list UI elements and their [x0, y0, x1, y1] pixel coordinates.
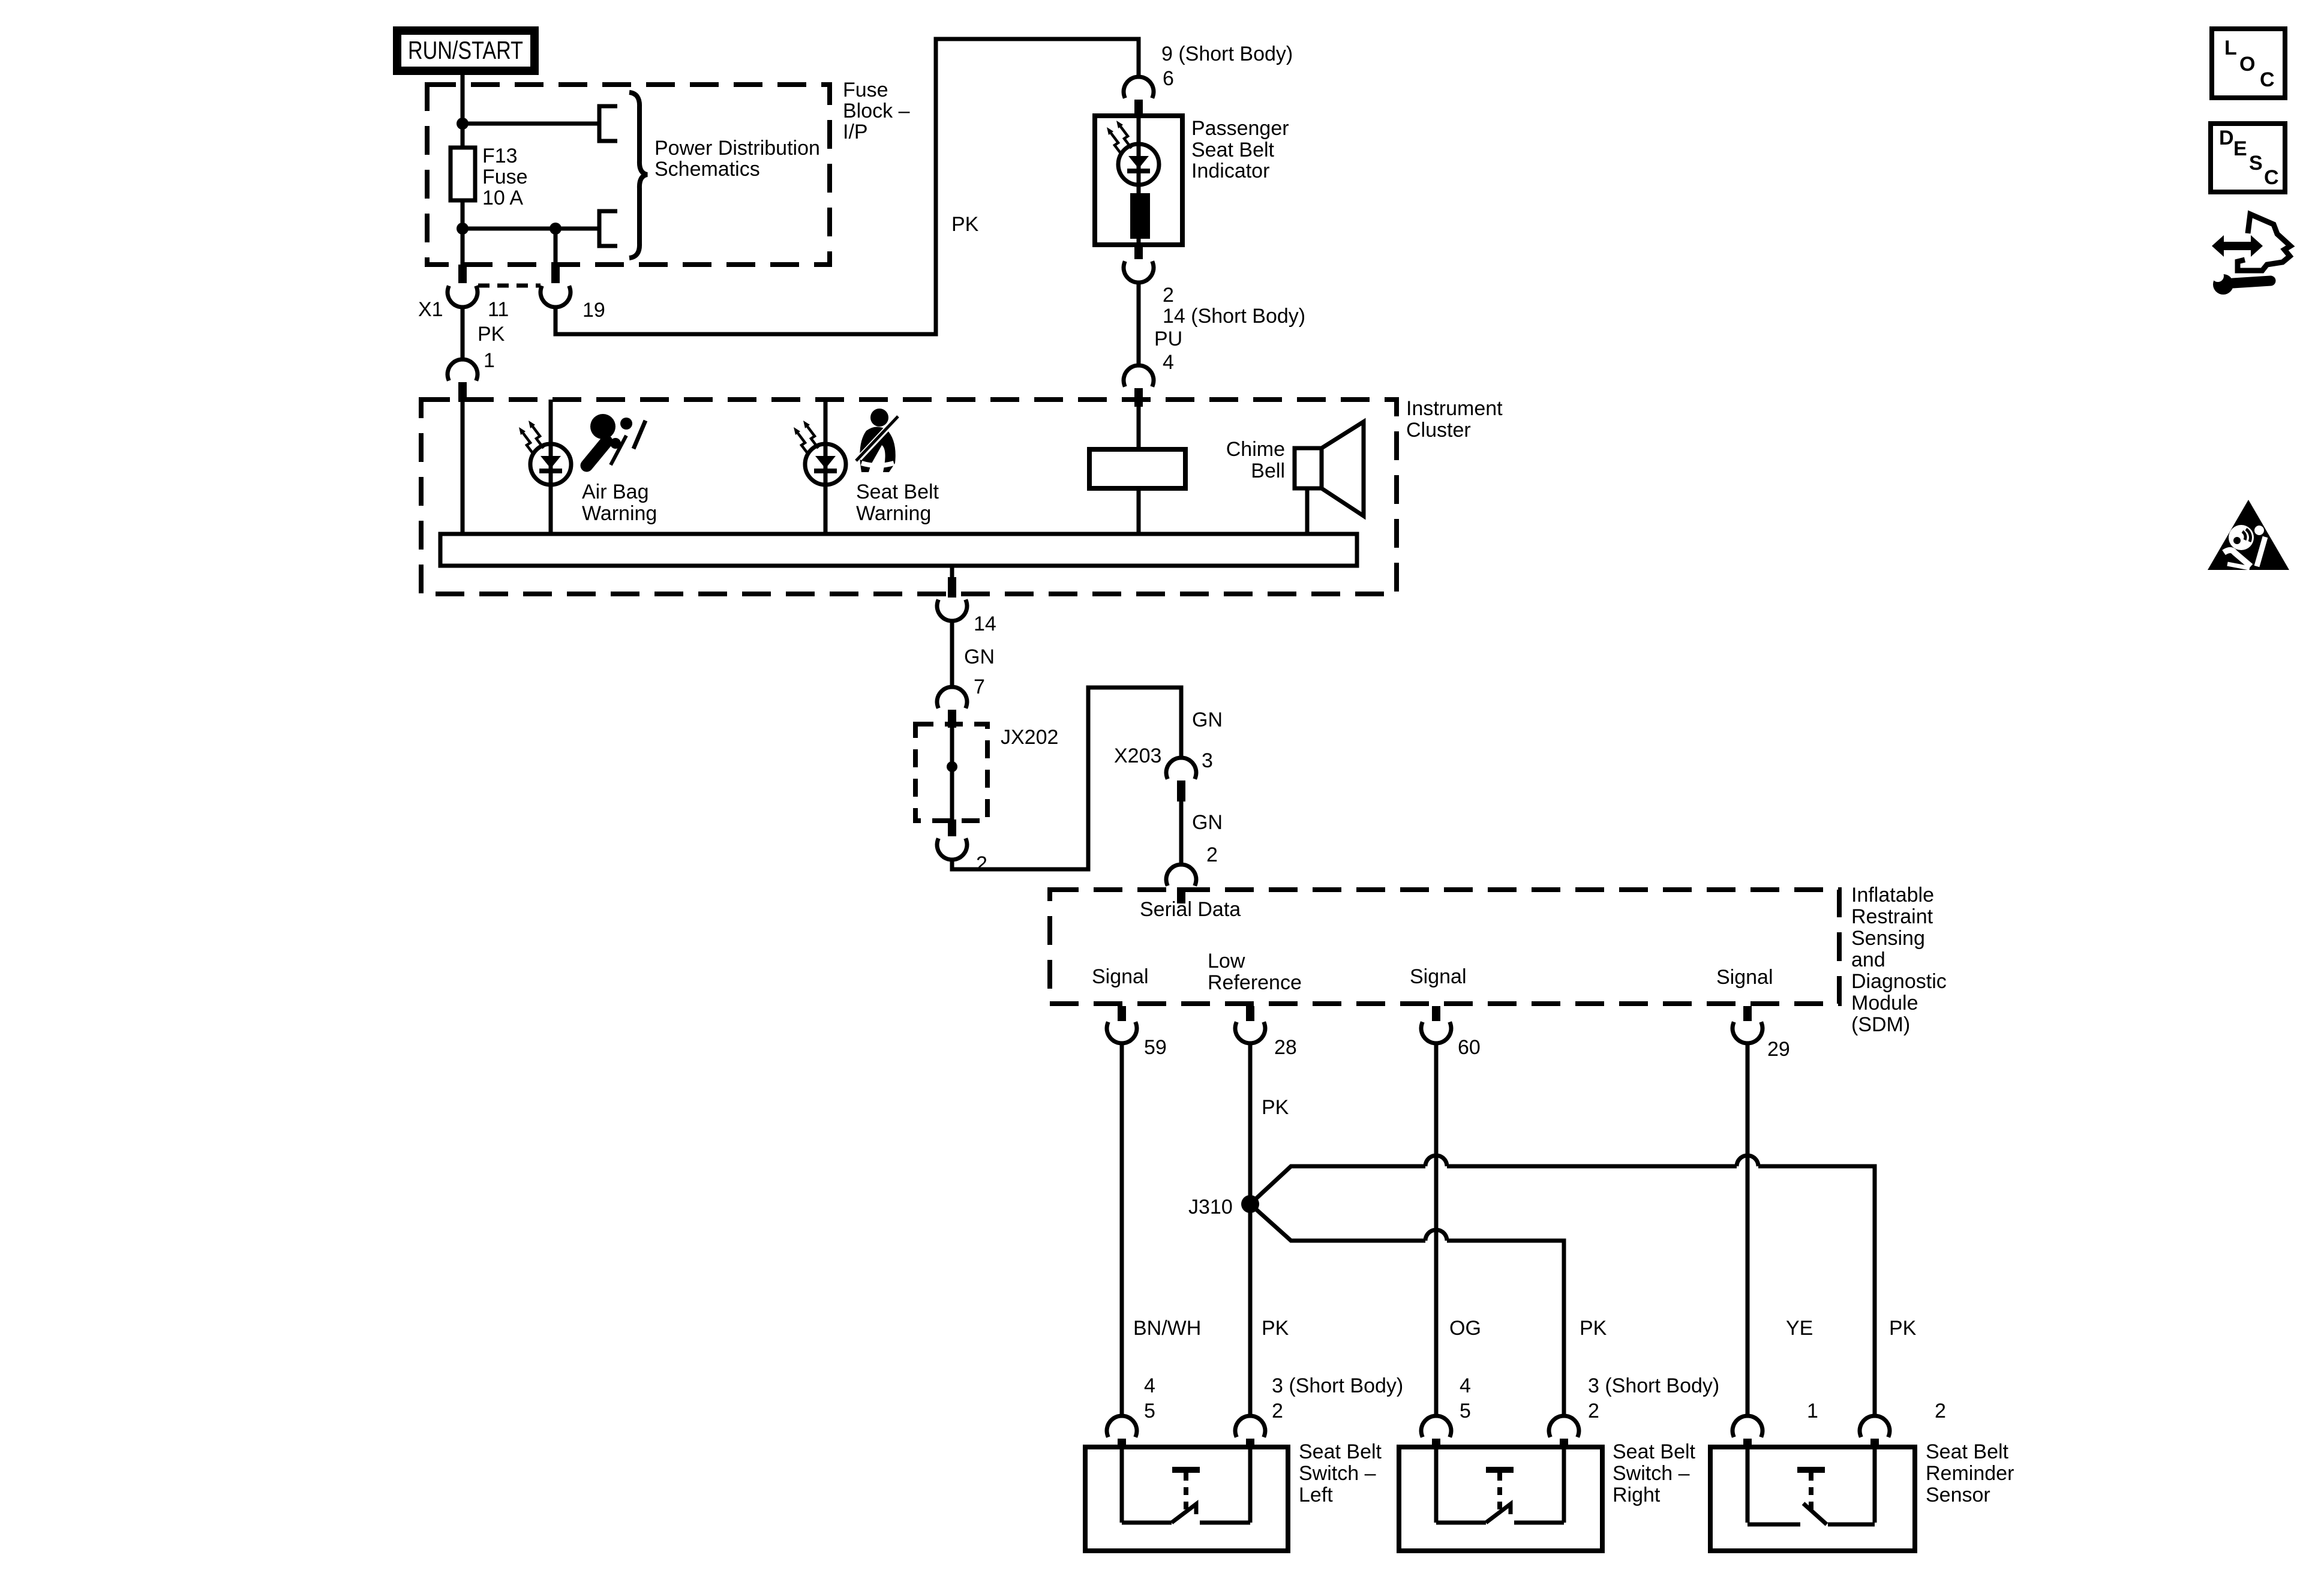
connector SDM pin 60 cup: [1421, 1022, 1451, 1043]
connector pin 4 stub: [1134, 388, 1143, 407]
node junction tap for pin 19: [550, 223, 562, 235]
wire cluster feed pin1: [461, 400, 465, 535]
power source RUN/START box: [397, 31, 535, 71]
terminal symbol A (to power distribution): [599, 106, 617, 141]
svg-text:PK: PK: [1262, 1096, 1289, 1119]
svg-text:X1: X1: [418, 298, 443, 321]
svg-text:S: S: [2249, 152, 2263, 175]
seat belt switch left box: [1085, 1447, 1288, 1551]
label Low Reference: [1208, 950, 1302, 994]
svg-text:Sensor: Sensor: [1926, 1484, 1990, 1506]
svg-text:2: 2: [1935, 1400, 1946, 1422]
node JX202 splice dot: [947, 761, 957, 772]
label Signal 29: [1716, 966, 1773, 989]
fuse block I/P dashed box: [427, 85, 830, 265]
svg-text:C: C: [2260, 68, 2275, 91]
seat belt switch right box: [1399, 1447, 1602, 1551]
wire speaker to bus: [1305, 488, 1310, 535]
svg-text:Low: Low: [1208, 950, 1245, 972]
svg-text:PK: PK: [1262, 1317, 1289, 1340]
svg-text:4: 4: [1144, 1374, 1155, 1397]
connector SDM pin 28 stub: [1246, 1006, 1254, 1021]
label pin 1 sensor: [1807, 1400, 1818, 1422]
svg-text:4: 4: [1163, 351, 1174, 374]
svg-text:Block –: Block –: [843, 100, 910, 122]
svg-text:Warning: Warning: [856, 502, 931, 525]
svg-text:Schematics: Schematics: [654, 158, 760, 181]
svg-text:Passenger: Passenger: [1191, 117, 1289, 140]
connector pin 2 stub: [1134, 245, 1143, 259]
svg-text:Diagnostic: Diagnostic: [1851, 970, 1947, 993]
connector pin 6 stub: [1134, 100, 1143, 118]
svg-text:GN: GN: [964, 646, 995, 668]
label pin 4 right: [1460, 1374, 1471, 1397]
svg-text:PU: PU: [1154, 328, 1182, 350]
svg-text:Inflatable: Inflatable: [1851, 884, 1934, 906]
wire signal 29 YE: [1746, 1043, 1750, 1416]
connector SDM pin 28 cup: [1235, 1022, 1265, 1043]
label Seat Belt Reminder Sensor: [1926, 1440, 2014, 1506]
svg-text:D: D: [2219, 127, 2234, 149]
wire through indicator LED: [1137, 116, 1141, 193]
wire air bag LED branch: [549, 400, 553, 535]
svg-text:3 (Short Body): 3 (Short Body): [1272, 1374, 1403, 1397]
svg-text:9 (Short Body): 9 (Short Body): [1161, 43, 1293, 65]
svg-text:F13: F13: [482, 145, 518, 167]
svg-text:14: 14: [974, 613, 996, 635]
svg-text:(SDM): (SDM): [1851, 1013, 1910, 1036]
label Passenger Seat Belt Indicator: [1191, 117, 1289, 182]
label X203 pin 3: [1202, 749, 1213, 772]
svg-text:10 A: 10 A: [482, 187, 523, 209]
indicator resistor: [1130, 193, 1150, 239]
brace power distribution: [629, 92, 647, 258]
label pin 29: [1767, 1038, 1790, 1061]
label Seat Belt Switch Right: [1613, 1440, 1696, 1506]
wire chime feed upper: [1137, 400, 1141, 449]
svg-text:Cluster: Cluster: [1406, 419, 1471, 442]
instrument cluster dashed box: [421, 400, 1397, 594]
label Power Distribution Schematics: [654, 137, 820, 181]
label X1: [418, 298, 443, 321]
svg-text:Bell: Bell: [1251, 460, 1285, 482]
svg-text:6: 6: [1163, 67, 1174, 90]
passenger seat belt indicator box: [1095, 116, 1182, 245]
label Fuse Block - I/P: [843, 79, 910, 143]
svg-text:2: 2: [1272, 1400, 1283, 1422]
label pin 2 sensor: [1935, 1400, 1946, 1422]
label pin 3 short body right: [1588, 1374, 1719, 1397]
connector SDM pin 59 cup: [1107, 1022, 1137, 1043]
wire junction to terminal A: [463, 122, 599, 126]
label pin 2 left: [1272, 1400, 1283, 1422]
svg-text:GN: GN: [1192, 709, 1223, 731]
wire fuse top segment: [461, 124, 465, 148]
connector pin 6 dome: [1124, 77, 1154, 98]
svg-text:60: 60: [1458, 1036, 1481, 1059]
cluster ground bus bar: [440, 534, 1357, 566]
label pin 4: [1163, 351, 1174, 374]
svg-text:Instrument: Instrument: [1406, 397, 1503, 420]
label Signal 60: [1410, 965, 1467, 988]
svg-text:Seat Belt: Seat Belt: [1926, 1440, 2009, 1463]
chime driver box: [1089, 449, 1185, 488]
svg-text:29: 29: [1767, 1038, 1790, 1061]
svg-text:J310: J310: [1188, 1196, 1233, 1218]
svg-text:PK: PK: [478, 323, 505, 346]
fuse F13 10A: [451, 148, 475, 200]
wire inside JX202: [950, 727, 954, 819]
label pin 5 right: [1460, 1400, 1471, 1422]
svg-text:JX202: JX202: [1001, 726, 1058, 749]
connector SDM pin 29 stub: [1743, 1006, 1752, 1021]
svg-text:Switch –: Switch –: [1299, 1462, 1376, 1485]
indicator LED diode: [1127, 156, 1150, 173]
icon DESC box: [2211, 124, 2285, 192]
icon diagnostic arrow: [2212, 235, 2263, 257]
connector cluster pin 1 dome: [448, 359, 478, 381]
svg-text:11: 11: [488, 298, 509, 321]
label Chime Bell: [1226, 438, 1285, 482]
wire low reference PK: [1248, 1043, 1253, 1416]
svg-text:3: 3: [1202, 749, 1213, 772]
seat belt reminder sensor box: [1710, 1447, 1915, 1551]
splice pack JX202 dashed box: [915, 724, 987, 821]
wire bus to pin 14: [950, 566, 954, 578]
svg-text:Fuse: Fuse: [482, 166, 528, 188]
terminal symbol B (to power distribution): [599, 211, 617, 246]
label Instrument Cluster: [1406, 397, 1503, 442]
node junction below fuse: [457, 223, 469, 235]
node J310 splice: [1241, 1195, 1259, 1213]
svg-text:Signal: Signal: [1410, 965, 1467, 988]
svg-text:Power Distribution: Power Distribution: [654, 137, 820, 160]
svg-text:2: 2: [1163, 284, 1174, 307]
svg-text:PK: PK: [1580, 1317, 1607, 1340]
svg-text:RUN/START: RUN/START: [408, 36, 523, 64]
svg-text:5: 5: [1460, 1400, 1471, 1422]
seat belt warning LED: [794, 421, 846, 485]
svg-text:Reminder: Reminder: [1926, 1462, 2014, 1485]
svg-text:28: 28: [1274, 1036, 1297, 1059]
wire junction to terminal B: [463, 227, 599, 231]
svg-text:Reference: Reference: [1208, 971, 1302, 994]
air bag pictogram: [587, 414, 645, 466]
label pin 11: [488, 298, 509, 321]
connector pin 14 cup: [937, 599, 967, 621]
svg-text:Fuse: Fuse: [843, 79, 888, 101]
label pin 9 short body: [1161, 43, 1293, 65]
wire PK pin19 to indicator: [556, 39, 1139, 334]
svg-text:O: O: [2239, 53, 2255, 76]
label wire GN X203 upper: [1192, 709, 1223, 731]
svg-text:Warning: Warning: [582, 502, 657, 525]
svg-text:2: 2: [976, 852, 987, 875]
icon airbag warning triangle: [2208, 500, 2289, 570]
connector X1 pin 19 cup: [541, 286, 571, 307]
label pin 1: [484, 349, 495, 372]
wire pin11 to cluster: [461, 306, 465, 359]
svg-text:BN/WH: BN/WH: [1133, 1317, 1201, 1340]
svg-text:7: 7: [974, 676, 985, 698]
svg-text:Sensing: Sensing: [1851, 927, 1925, 950]
connector pin 7 stub: [948, 710, 956, 728]
svg-text:14 (Short Body): 14 (Short Body): [1163, 305, 1305, 328]
connector pin 14 stub: [948, 577, 956, 598]
SDM dashed box: [1050, 890, 1839, 1004]
svg-text:Indicator: Indicator: [1191, 160, 1269, 182]
svg-text:Signal: Signal: [1092, 965, 1149, 988]
svg-text:Seat Belt: Seat Belt: [1191, 139, 1275, 161]
svg-text:Switch –: Switch –: [1613, 1462, 1690, 1485]
wire JX202 to X203: [952, 688, 1181, 869]
label pin 19: [582, 299, 605, 322]
label pin 4 left: [1144, 1374, 1155, 1397]
wire signal 60 OG: [1434, 1043, 1439, 1416]
svg-text:Chime: Chime: [1226, 438, 1285, 461]
wire pin14 to JX202: [950, 620, 954, 687]
wire seat belt LED branch: [824, 400, 828, 535]
connector cluster pin 1 stub: [458, 382, 467, 402]
connector SDM pin 29 cup: [1733, 1022, 1762, 1043]
connector SDM pin 60 stub: [1432, 1006, 1440, 1021]
label pin 60: [1458, 1036, 1481, 1059]
label wire OG: [1449, 1317, 1481, 1340]
label Inflatable Restraint SDM: [1851, 884, 1947, 1036]
label pin 59: [1144, 1036, 1167, 1059]
svg-text:Module: Module: [1851, 992, 1918, 1014]
label pin 28: [1274, 1036, 1297, 1059]
svg-text:1: 1: [1807, 1400, 1818, 1422]
label Air Bag Warning: [582, 481, 657, 525]
label SDM pin 2: [1206, 843, 1218, 866]
label wire PK vertical: [951, 213, 979, 236]
wire fuse bottom segment: [461, 200, 465, 229]
label wire YE: [1786, 1317, 1813, 1340]
indicator LED arrows: [1107, 121, 1131, 155]
connector sensor pin 1 dome: [1733, 1416, 1762, 1449]
svg-text:E: E: [2233, 137, 2247, 160]
node junction on fused feed: [457, 118, 469, 130]
wire chime feed lower: [1137, 488, 1141, 535]
icon diagnostic wrench: [2212, 270, 2271, 295]
connector JX202 pin 2 cup: [937, 838, 967, 860]
label pin 2: [1163, 284, 1174, 307]
svg-text:YE: YE: [1786, 1317, 1813, 1340]
indicator LED circle: [1118, 144, 1159, 185]
connector JX202 pin 2 stub: [948, 819, 956, 836]
connector left switch pin 2 dome: [1235, 1416, 1265, 1449]
label pin 3 short body left: [1272, 1374, 1403, 1397]
label Seat Belt Warning: [856, 481, 939, 525]
svg-text:OG: OG: [1449, 1317, 1481, 1340]
connector SDM pin 2 dome: [1166, 864, 1196, 886]
svg-text:Seat Belt: Seat Belt: [1299, 1440, 1382, 1463]
svg-text:PK: PK: [1889, 1317, 1917, 1340]
connector sensor pin 2 dome: [1860, 1416, 1890, 1449]
svg-text:C: C: [2264, 166, 2279, 189]
svg-text:Right: Right: [1613, 1484, 1661, 1506]
label J310: [1188, 1196, 1233, 1218]
svg-text:L: L: [2224, 37, 2237, 59]
connector SDM pin 59 stub: [1118, 1006, 1126, 1021]
air bag warning LED: [519, 421, 571, 485]
label wire GN upper: [964, 646, 995, 668]
svg-text:GN: GN: [1192, 811, 1223, 834]
wire J310 upper branch: [1250, 1155, 1875, 1416]
wire RUN/START to fuse block: [461, 75, 465, 125]
label Seat Belt Switch Left: [1299, 1440, 1382, 1506]
label Serial Data: [1140, 898, 1241, 921]
connector X203 pin 3 stub: [1177, 781, 1185, 801]
wire resistor to box edge: [1137, 239, 1141, 246]
svg-text:X203: X203: [1114, 745, 1161, 767]
svg-text:Air Bag: Air Bag: [582, 481, 649, 503]
wire X203 to SDM: [1179, 801, 1184, 864]
connector X1 pin 19 stub: [551, 265, 560, 283]
connector SDM pin 2 stub: [1177, 887, 1185, 903]
label pin 6: [1163, 67, 1174, 90]
wire pin11 inside box: [461, 229, 465, 266]
connector pin 7 dome: [937, 687, 967, 709]
svg-text:and: and: [1851, 948, 1885, 971]
svg-text:PK: PK: [951, 213, 979, 236]
svg-text:Signal: Signal: [1716, 966, 1773, 989]
svg-text:1: 1: [484, 349, 495, 372]
icon diagnostic connector outline: [2238, 214, 2290, 271]
label pin 14 below cluster: [974, 613, 996, 635]
label X203: [1114, 745, 1161, 767]
connector X1 pin 11 cup: [448, 286, 478, 307]
connector left switch pin 5 dome: [1107, 1416, 1137, 1449]
svg-text:19: 19: [582, 299, 605, 322]
connector right switch pin 2 dome: [1549, 1416, 1579, 1449]
svg-text:4: 4: [1460, 1374, 1471, 1397]
wire indicator to cluster: [1137, 281, 1141, 365]
label JX202: [1001, 726, 1058, 749]
label pin 7: [974, 676, 985, 698]
label pin 14 short body: [1163, 305, 1305, 328]
label wire PK x1: [478, 323, 505, 346]
connector X203 pin 3 dome: [1166, 758, 1196, 779]
label wire PK middle: [1580, 1317, 1607, 1340]
label wire PK right: [1889, 1317, 1917, 1340]
svg-text:3 (Short Body): 3 (Short Body): [1588, 1374, 1719, 1397]
svg-text:Serial Data: Serial Data: [1140, 898, 1241, 921]
connector X1 dashed link: [478, 284, 541, 288]
seat belt pictogram: [856, 409, 898, 472]
svg-text:Left: Left: [1299, 1484, 1333, 1506]
label pin 2 right: [1588, 1400, 1599, 1422]
svg-text:2: 2: [1206, 843, 1218, 866]
connector pin 2 cup: [1124, 261, 1154, 283]
svg-text:59: 59: [1144, 1036, 1167, 1059]
label wire PK left: [1262, 1317, 1289, 1340]
label pin 5 left: [1144, 1400, 1155, 1422]
connector X1 pin 11 stub: [458, 265, 467, 283]
svg-text:2: 2: [1588, 1400, 1599, 1422]
wire signal 59 BN/WH: [1120, 1043, 1124, 1416]
label wire PU: [1154, 328, 1182, 350]
label F13 Fuse 10 A: [482, 145, 528, 209]
label wire GN X203 lower: [1192, 811, 1223, 834]
label wire BN/WH: [1133, 1317, 1201, 1340]
wire pin19 inside box: [554, 229, 558, 266]
svg-text:Restraint: Restraint: [1851, 905, 1933, 928]
label wire PK upper: [1262, 1096, 1289, 1119]
svg-text:5: 5: [1144, 1400, 1155, 1422]
label Signal 59: [1092, 965, 1149, 988]
svg-text:Seat Belt: Seat Belt: [856, 481, 939, 503]
connector pin 4 dome: [1124, 365, 1154, 387]
svg-text:Seat Belt: Seat Belt: [1613, 1440, 1696, 1463]
connector right switch pin 5 dome: [1421, 1416, 1451, 1449]
icon LOC box: [2212, 29, 2285, 98]
wire J310 lower branch: [1250, 1204, 1564, 1416]
chime bell speaker: [1295, 422, 1364, 516]
svg-text:I/P: I/P: [843, 121, 868, 143]
label JX202 pin 2: [976, 852, 987, 875]
